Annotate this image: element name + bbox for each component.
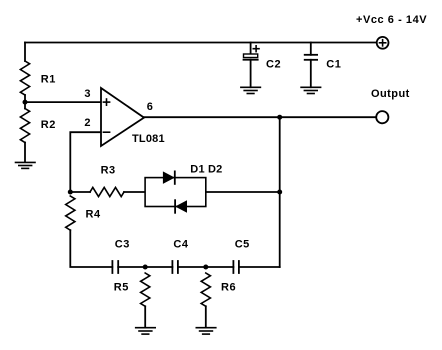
resistor R3 <box>90 187 124 196</box>
op-amp U1 TL081 <box>101 88 144 146</box>
wire C4 to C5 <box>178 266 234 268</box>
svg-text:+Vcc 6 - 14V: +Vcc 6 - 14V <box>356 14 427 26</box>
svg-text:R6: R6 <box>221 281 236 293</box>
svg-text:C2: C2 <box>266 58 281 70</box>
wire C5 to right rail <box>239 266 280 268</box>
ground (below C2) <box>241 87 261 93</box>
svg-text:6: 6 <box>147 101 153 113</box>
polarity plus of C2 <box>253 46 259 52</box>
svg-text:Output: Output <box>371 88 410 100</box>
wire R4 to bottom rail <box>70 230 112 267</box>
node feedback right junction <box>277 190 282 195</box>
svg-text:3: 3 <box>84 88 90 100</box>
wire diode box to right junction <box>206 191 280 193</box>
resistor R5 <box>141 273 150 306</box>
resistor R2 <box>20 109 29 143</box>
wire top supply rail <box>25 42 377 44</box>
capacitor C1 <box>305 43 317 88</box>
node feedback left junction <box>68 190 73 195</box>
wire pin 3 input <box>25 101 101 103</box>
node A junction R1 R2 pin3 <box>23 100 28 105</box>
svg-text:2: 2 <box>84 117 90 129</box>
wire R2 to ground <box>24 143 26 163</box>
capacitor C2 electrolytic <box>244 43 258 88</box>
ground (below R2) <box>16 162 36 168</box>
svg-text:R2: R2 <box>41 119 56 131</box>
svg-text:C5: C5 <box>235 238 250 250</box>
svg-text:R4: R4 <box>86 209 101 221</box>
wire output node down right side <box>279 117 281 267</box>
wire output <box>144 116 376 118</box>
ground (below R5) <box>136 328 156 334</box>
svg-text:R1: R1 <box>41 73 56 85</box>
svg-text:C3: C3 <box>115 238 130 250</box>
svg-text:R3: R3 <box>101 164 116 176</box>
wire R1 to R2 <box>24 95 26 109</box>
wire R5 to ground <box>144 306 146 327</box>
node output junction <box>277 115 282 120</box>
wire node to R3 <box>70 191 90 193</box>
resistor R4 <box>66 196 75 230</box>
ground (below C1) <box>301 87 321 93</box>
wire left rail top <box>24 43 26 62</box>
terminal Output <box>376 111 388 123</box>
capacitor C5 <box>233 261 239 273</box>
diode D2 <box>175 200 187 213</box>
wire R6 to ground <box>205 306 207 327</box>
terminal +Vcc <box>377 37 389 49</box>
capacitor C3 <box>112 261 118 273</box>
resistor R6 <box>201 273 210 306</box>
wire C3 to C4 <box>118 266 172 268</box>
ground (below R6) <box>196 328 216 334</box>
node C3 C4 R5 junction <box>143 265 148 270</box>
node C4 C5 R6 junction <box>203 265 208 270</box>
svg-text:R5: R5 <box>114 281 129 293</box>
diode pair frame D1 D2 <box>145 178 206 207</box>
resistor R1 <box>20 61 29 95</box>
svg-text:TL081: TL081 <box>132 133 165 145</box>
svg-text:C4: C4 <box>173 238 188 250</box>
capacitor C4 <box>172 261 178 273</box>
diode D1 <box>163 171 175 184</box>
svg-text:D1 D2: D1 D2 <box>190 163 222 175</box>
wire pin 2 input <box>70 132 101 192</box>
svg-text:C1: C1 <box>326 58 341 70</box>
wire R3 to diode box <box>124 191 145 193</box>
